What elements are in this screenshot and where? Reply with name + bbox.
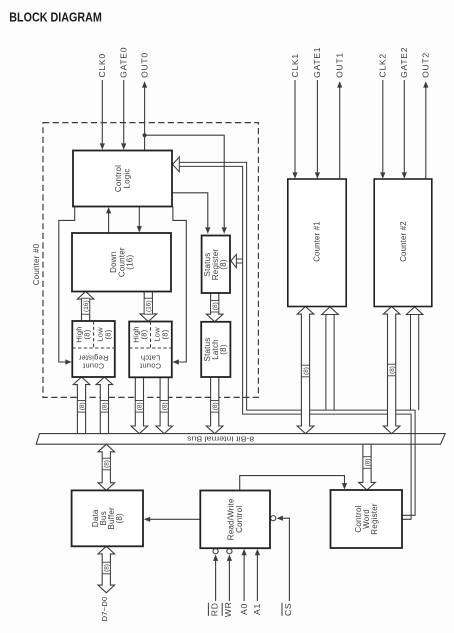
svg-text:GATE2: GATE2 xyxy=(399,47,409,78)
pin label OUT2 xyxy=(421,52,431,78)
label read/write control xyxy=(227,498,244,540)
svg-text:OUT1: OUT1 xyxy=(335,52,345,78)
arrow (8) bus to count register low xyxy=(96,377,113,434)
label control word register xyxy=(354,503,379,535)
arrow (8) bus to count register high xyxy=(73,377,90,434)
8-bit internal bus band xyxy=(36,434,445,445)
label status latch xyxy=(203,338,228,362)
pin label CLK2 xyxy=(378,53,388,77)
block down counter xyxy=(72,233,171,292)
block read/write control xyxy=(200,491,270,549)
svg-text:8-Bit Internal Bus: 8-Bit Internal Bus xyxy=(187,435,254,444)
pin label OUT0 xyxy=(139,52,149,78)
wire GATE2 xyxy=(402,80,407,179)
block control logic xyxy=(73,151,172,207)
pin label CLK1 xyxy=(290,53,300,77)
wire A0 xyxy=(242,549,247,601)
pin label A0 xyxy=(239,603,249,615)
wire OUT0 branch to status register xyxy=(145,135,227,234)
svg-text:WR: WR xyxy=(223,601,233,617)
arrow (16) count register to down counter xyxy=(77,292,94,322)
arrow (8) data bus buffer to D7-D0 xyxy=(98,546,115,592)
wire WR xyxy=(227,549,232,601)
wire GATE1 xyxy=(315,80,320,179)
wire control logic to count latch xyxy=(172,207,186,365)
wire CLK1 xyxy=(292,80,297,179)
control word arrow into counter #1 xyxy=(322,307,339,410)
label count latch low (8) xyxy=(152,327,169,342)
svg-text:Counter #1: Counter #1 xyxy=(313,221,322,262)
arrow (8) status latch to bus xyxy=(206,377,223,434)
label count latch xyxy=(139,354,161,371)
wire CLK0 xyxy=(100,80,105,150)
svg-text:GATE0: GATE0 xyxy=(119,47,129,78)
svg-text:A0: A0 xyxy=(239,603,249,615)
svg-text:CS: CS xyxy=(283,603,293,616)
pin label CS xyxy=(282,603,293,616)
block status register xyxy=(202,236,230,294)
arrow (8) count latch low to bus xyxy=(156,377,173,433)
svg-text:GATE1: GATE1 xyxy=(312,47,322,78)
block count latch xyxy=(129,322,172,378)
label counter #1 xyxy=(313,221,322,262)
channel arrowhead into control logic xyxy=(173,157,180,172)
wire control logic to down counter xyxy=(137,207,142,233)
count latch dividers xyxy=(129,322,172,349)
block count register xyxy=(72,321,115,377)
label status register xyxy=(203,249,228,281)
svg-text:(8): (8) xyxy=(212,402,219,410)
svg-text:OUT2: OUT2 xyxy=(421,52,431,78)
wire OUT2 xyxy=(423,81,428,179)
svg-text:D7~D0: D7~D0 xyxy=(100,597,109,622)
wire CLK2 xyxy=(380,80,385,179)
block control word register xyxy=(331,490,403,548)
pin label GATE2 xyxy=(399,47,409,78)
wire control logic to count register xyxy=(59,207,75,365)
svg-text:BLOCK DIAGRAM: BLOCK DIAGRAM xyxy=(9,10,102,25)
pin label RD xyxy=(208,602,219,616)
label count register xyxy=(78,354,108,371)
pin label GATE1 xyxy=(312,47,322,78)
arrow (8) counter1 to bus xyxy=(297,307,314,434)
count register dividers xyxy=(72,321,115,348)
svg-text:(8): (8) xyxy=(212,302,219,310)
wire control logic to status register xyxy=(173,193,211,234)
svg-text:(8): (8) xyxy=(137,402,144,410)
label count latch high (8) xyxy=(131,326,148,342)
svg-text:CountLatch: CountLatch xyxy=(139,354,161,371)
label down counter xyxy=(109,247,135,277)
svg-text:(8): (8) xyxy=(389,366,396,374)
block data bus buffer xyxy=(72,490,143,546)
block counter #1 xyxy=(288,179,346,307)
wire down counter to control logic xyxy=(106,207,111,233)
svg-text:(8): (8) xyxy=(102,402,109,410)
svg-text:ControlLogic: ControlLogic xyxy=(114,165,131,192)
pin label WR xyxy=(222,601,233,617)
svg-text:Counter #2: Counter #2 xyxy=(399,221,408,262)
svg-text:(16): (16) xyxy=(146,300,153,312)
wire CS xyxy=(271,516,290,601)
svg-text:RD: RD xyxy=(209,602,219,616)
block status latch xyxy=(201,322,230,377)
svg-text:(8): (8) xyxy=(104,460,111,468)
svg-text:CLK2: CLK2 xyxy=(378,53,388,77)
counter #0 dashed enclosure xyxy=(43,123,258,398)
label count register low (8) xyxy=(95,327,112,342)
pin label A1 xyxy=(252,603,262,615)
wire OUT0 xyxy=(142,81,147,150)
wire RD xyxy=(213,549,218,601)
svg-text:(8): (8) xyxy=(79,402,86,410)
control word arrow into counter #2 xyxy=(406,307,423,410)
wire A1 xyxy=(255,549,260,601)
label counter #2 xyxy=(399,221,408,262)
svg-text:(8): (8) xyxy=(303,367,310,375)
wire OUT1 xyxy=(337,81,342,179)
arrow (8) bus to control word register xyxy=(359,444,376,490)
label count register high (8) xyxy=(74,326,91,342)
label 8-bit internal bus xyxy=(187,435,254,444)
label control logic xyxy=(114,165,131,192)
label data bus buffer xyxy=(91,507,124,530)
svg-text:A1: A1 xyxy=(252,603,262,615)
wire read/write control to data bus buffer xyxy=(144,517,201,522)
svg-text:(8): (8) xyxy=(161,402,168,410)
arrow (8) status register to status latch xyxy=(206,293,223,322)
pin label GATE0 xyxy=(119,47,129,78)
arrow (8) count latch high to bus xyxy=(131,377,148,433)
pin label D7-D0 xyxy=(100,597,109,622)
arrow (8) bus to data bus buffer xyxy=(98,444,115,490)
pin label OUT1 xyxy=(335,52,345,78)
svg-text:Counter #0: Counter #0 xyxy=(32,243,41,285)
pin label CLK0 xyxy=(97,53,107,77)
arrow (8) counter2 to bus xyxy=(383,307,400,434)
control word distribution channel xyxy=(179,162,415,519)
svg-text:(8): (8) xyxy=(104,564,111,572)
title BLOCK DIAGRAM xyxy=(9,10,102,25)
arrow (16) down counter to count latch xyxy=(140,292,157,322)
wire read/write control to control word register xyxy=(240,476,347,491)
svg-text:CLK1: CLK1 xyxy=(290,53,300,77)
wire GATE0 xyxy=(121,80,126,150)
svg-text:(8): (8) xyxy=(364,459,371,467)
svg-text:OUT0: OUT0 xyxy=(139,52,149,78)
svg-text:(16): (16) xyxy=(83,300,90,312)
block counter #2 xyxy=(374,179,432,307)
channel branch into status register xyxy=(231,254,243,267)
svg-text:CLK0: CLK0 xyxy=(97,53,107,77)
label Counter #0 xyxy=(32,243,41,285)
